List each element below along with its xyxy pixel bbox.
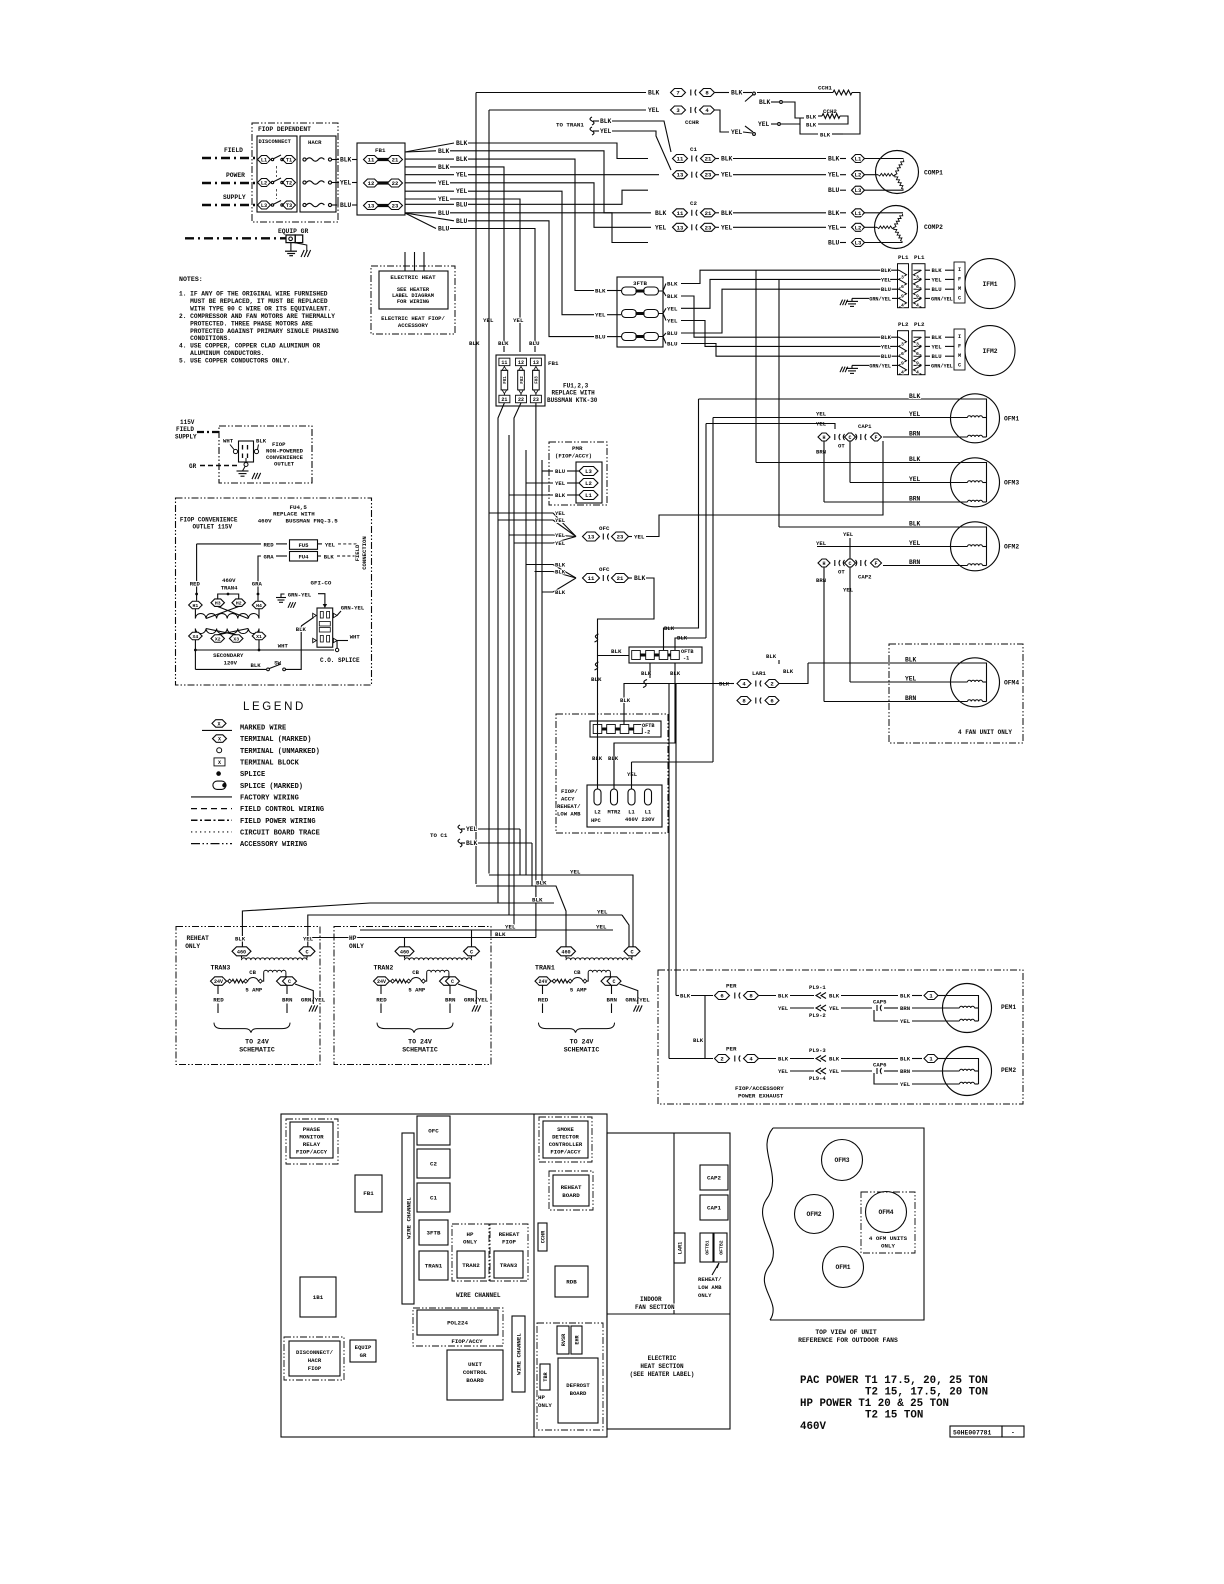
svg-text:ALUMINUM CONDUCTORS.: ALUMINUM CONDUCTORS.	[190, 350, 264, 357]
svg-text:12: 12	[368, 180, 375, 187]
svg-text:REHEAT/: REHEAT/	[557, 803, 581, 810]
svg-text:PL2: PL2	[898, 321, 909, 328]
svg-text:FIOP: FIOP	[308, 1365, 322, 1372]
svg-text:115V: 115V	[180, 419, 195, 426]
svg-text:DISCONNECT/: DISCONNECT/	[296, 1349, 334, 1356]
svg-text:21: 21	[392, 157, 399, 164]
svg-text:TERMINAL BLOCK: TERMINAL BLOCK	[240, 760, 300, 768]
svg-text:YEL: YEL	[909, 411, 921, 418]
svg-text:LAR1: LAR1	[752, 670, 766, 677]
svg-text:YEL: YEL	[843, 531, 854, 538]
svg-text:YEL: YEL	[667, 318, 678, 325]
svg-text:BLK: BLK	[766, 653, 777, 660]
svg-text:24V: 24V	[377, 979, 386, 985]
svg-text:MARKED WIRE: MARKED WIRE	[240, 725, 286, 733]
svg-text:4. USE COPPER, COPPER CLAD ALU: 4. USE COPPER, COPPER CLAD ALUMINUM OR	[179, 343, 320, 350]
svg-text:BOARD: BOARD	[562, 1192, 580, 1199]
svg-text:YEL: YEL	[932, 343, 943, 350]
svg-text:YEL: YEL	[721, 172, 733, 179]
svg-text:460: 460	[237, 949, 246, 955]
svg-text:TERMINAL (MARKED): TERMINAL (MARKED)	[240, 736, 311, 744]
svg-text:-1: -1	[683, 656, 689, 662]
svg-text:BLU: BLU	[456, 201, 468, 208]
svg-text:FACTORY WIRING: FACTORY WIRING	[240, 795, 299, 803]
svg-text:7: 7	[676, 90, 679, 97]
svg-text:460: 460	[400, 949, 409, 955]
svg-text:BLK: BLK	[600, 118, 612, 125]
svg-text:ONLY: ONLY	[698, 1292, 712, 1299]
svg-text:BLK: BLK	[591, 676, 602, 683]
svg-text:BUSSMAN KTK-30: BUSSMAN KTK-30	[547, 397, 598, 404]
svg-text:YEL: YEL	[438, 180, 450, 187]
svg-text:(SEE HEATER LABEL): (SEE HEATER LABEL)	[630, 1371, 695, 1378]
svg-text:BLK: BLK	[721, 156, 733, 163]
svg-text:BLK: BLK	[900, 1056, 911, 1063]
svg-text:FU2: FU2	[521, 376, 525, 384]
svg-text:WIRE CHANNEL: WIRE CHANNEL	[516, 1333, 523, 1375]
svg-text:YEL: YEL	[829, 1068, 840, 1075]
svg-text:WHT: WHT	[223, 438, 234, 445]
svg-text:BLK: BLK	[438, 148, 450, 155]
svg-text:PAC POWER T1 17.5, 20, 25 TON: PAC POWER T1 17.5, 20, 25 TON	[800, 1375, 988, 1387]
svg-text:BLK: BLK	[693, 1037, 704, 1044]
svg-text:FU5: FU5	[298, 542, 309, 549]
svg-text:YEL: YEL	[555, 510, 566, 517]
svg-text:OFTB1: OFTB1	[705, 1240, 711, 1255]
svg-text:GR: GR	[189, 463, 197, 470]
svg-text:OFM3: OFM3	[834, 1157, 849, 1164]
svg-text:4: 4	[901, 303, 904, 309]
svg-text:9: 9	[901, 294, 904, 300]
svg-text:BRN: BRN	[445, 996, 456, 1003]
svg-text:460V: 460V	[222, 577, 236, 584]
svg-text:X: X	[218, 737, 221, 743]
svg-text:L1: L1	[628, 810, 634, 816]
svg-text:BLK: BLK	[881, 267, 892, 274]
svg-text:YEL: YEL	[655, 224, 667, 231]
svg-text:YEL: YEL	[648, 107, 660, 114]
svg-text:BLK: BLK	[829, 993, 840, 1000]
svg-text:BRN: BRN	[816, 449, 826, 456]
svg-text:I: I	[958, 334, 961, 340]
svg-text:BLU: BLU	[667, 330, 678, 337]
svg-text:OFC: OFC	[428, 1128, 439, 1135]
svg-text:YEL: YEL	[627, 771, 638, 778]
svg-text:1. IF ANY OF THE ORIGINAL WIRE: 1. IF ANY OF THE ORIGINAL WIRE FURNISHED	[179, 291, 328, 298]
svg-text:OFM2: OFM2	[806, 1211, 821, 1218]
svg-text:11: 11	[677, 210, 684, 217]
svg-text:CCHR: CCHR	[685, 119, 699, 126]
svg-text:BLU: BLU	[667, 341, 678, 348]
svg-text:ONLY: ONLY	[349, 943, 364, 950]
svg-text:23: 23	[617, 534, 624, 541]
svg-text:H3: H3	[215, 601, 221, 607]
svg-text:460: 460	[561, 949, 570, 955]
svg-text:11: 11	[588, 575, 595, 582]
svg-text:TRAN4: TRAN4	[221, 585, 238, 592]
svg-text:YEL: YEL	[340, 180, 352, 187]
svg-text:L2: L2	[594, 810, 600, 816]
svg-text:OFM3: OFM3	[1004, 480, 1019, 487]
svg-text:IFM2: IFM2	[982, 348, 997, 355]
svg-text:BRN: BRN	[909, 431, 921, 438]
svg-text:4 OFM UNITS: 4 OFM UNITS	[869, 1235, 908, 1242]
svg-text:23: 23	[392, 203, 399, 210]
svg-text:50HE007781: 50HE007781	[953, 1430, 992, 1437]
svg-text:RED: RED	[376, 996, 387, 1003]
svg-text:GRN/YEL: GRN/YEL	[869, 363, 891, 369]
svg-text:CONDITIONS.: CONDITIONS.	[190, 335, 231, 342]
svg-text:DETECTOR: DETECTOR	[552, 1134, 579, 1141]
svg-text:BRN: BRN	[900, 1005, 910, 1012]
svg-text:BLU: BLU	[529, 340, 540, 347]
svg-text:YEL: YEL	[829, 1005, 840, 1012]
svg-text:C: C	[958, 363, 961, 369]
svg-text:YEL: YEL	[555, 532, 566, 539]
svg-text:H: H	[822, 435, 825, 441]
svg-text:FAN SECTION: FAN SECTION	[635, 1304, 675, 1311]
svg-text:BLK: BLK	[783, 668, 794, 675]
svg-text:CB: CB	[249, 969, 256, 976]
svg-text:4: 4	[916, 370, 919, 376]
svg-text:BRN: BRN	[900, 1068, 910, 1075]
svg-text:BLU: BLU	[438, 226, 450, 233]
svg-text:C: C	[630, 949, 633, 955]
svg-text:C: C	[848, 435, 851, 441]
svg-text:13: 13	[588, 534, 595, 541]
svg-text:FIELD CONTROL WIRING: FIELD CONTROL WIRING	[240, 806, 324, 814]
svg-text:YEL: YEL	[438, 196, 450, 203]
svg-text:5 AMP: 5 AMP	[408, 987, 425, 994]
svg-text:BLK: BLK	[595, 288, 606, 295]
svg-text:ACCY: ACCY	[561, 796, 575, 803]
svg-text:ONLY: ONLY	[881, 1243, 895, 1250]
svg-text:POWER: POWER	[226, 172, 245, 179]
svg-text:REHEAT: REHEAT	[499, 1231, 520, 1238]
svg-text:BLK: BLK	[820, 132, 831, 139]
svg-text:H2: H2	[236, 601, 242, 607]
svg-text:11: 11	[368, 157, 375, 164]
svg-text:BLK: BLK	[498, 340, 509, 347]
svg-text:BRN: BRN	[282, 996, 293, 1003]
svg-text:TO 24V: TO 24V	[408, 1039, 432, 1046]
svg-text:WITH TYPE 90 C WIRE OR ITS EQU: WITH TYPE 90 C WIRE OR ITS EQUIVALENT.	[190, 305, 331, 312]
svg-text:(FIOP/ACCY): (FIOP/ACCY)	[555, 453, 592, 460]
svg-text:L1: L1	[855, 210, 862, 217]
svg-text:TRAN1: TRAN1	[535, 965, 555, 972]
svg-text:BLK: BLK	[340, 157, 352, 164]
svg-text:YEL: YEL	[909, 540, 921, 547]
svg-text:CCH1: CCH1	[818, 85, 832, 92]
svg-text:PROTECTED AGAINST PRIMARY SING: PROTECTED AGAINST PRIMARY SINGLE PHASING	[190, 328, 339, 335]
svg-text:PEM1: PEM1	[1001, 1004, 1016, 1011]
svg-text:BLK: BLK	[608, 755, 619, 762]
svg-text:DEFROST: DEFROST	[566, 1382, 590, 1389]
svg-text:1B1: 1B1	[313, 1294, 324, 1301]
svg-text:LOW AMB: LOW AMB	[698, 1284, 722, 1291]
svg-text:YEL: YEL	[513, 317, 524, 324]
svg-text:YEL: YEL	[843, 587, 854, 594]
svg-text:HACR: HACR	[308, 139, 322, 146]
svg-text:-2: -2	[644, 730, 650, 736]
svg-text:CAP6: CAP6	[873, 1062, 887, 1069]
svg-text:I: I	[958, 267, 961, 273]
svg-text:CONNECTION: CONNECTION	[361, 536, 368, 570]
svg-text:FU4: FU4	[298, 554, 309, 561]
svg-text:ACCESSORY WIRING: ACCESSORY WIRING	[240, 841, 307, 849]
svg-text:BLK: BLK	[731, 90, 743, 97]
svg-text:OFC: OFC	[599, 566, 610, 573]
svg-text:21: 21	[705, 156, 712, 163]
svg-text:MONITOR: MONITOR	[299, 1134, 324, 1141]
svg-text:120V: 120V	[224, 660, 238, 667]
svg-text:ONLY: ONLY	[185, 943, 200, 950]
svg-text:BLK: BLK	[495, 931, 506, 938]
svg-text:FIOP: FIOP	[502, 1239, 516, 1246]
svg-text:21: 21	[617, 575, 624, 582]
svg-text:YEL: YEL	[932, 276, 943, 283]
svg-text:NOTES:: NOTES:	[179, 276, 203, 283]
svg-text:M: M	[958, 286, 961, 292]
svg-text:OT: OT	[838, 443, 845, 450]
svg-text:X2: X2	[215, 637, 221, 643]
svg-text:4 FAN UNIT ONLY: 4 FAN UNIT ONLY	[958, 729, 1012, 736]
svg-text:OFC: OFC	[599, 525, 610, 532]
svg-text:REPLACE WITH: REPLACE WITH	[273, 511, 315, 518]
svg-text:HP: HP	[467, 1231, 474, 1238]
svg-text:TRAN2: TRAN2	[462, 1262, 480, 1269]
svg-text:YEL: YEL	[881, 276, 892, 283]
svg-text:TRAN3: TRAN3	[211, 965, 231, 972]
svg-text:GR: GR	[360, 1352, 367, 1359]
svg-text:T1: T1	[286, 158, 292, 164]
svg-text:230V: 230V	[642, 817, 656, 823]
svg-text:GRN/YEL: GRN/YEL	[931, 296, 953, 302]
svg-text:BLK: BLK	[721, 210, 733, 217]
svg-text:BLU: BLU	[932, 286, 942, 293]
svg-text:EHR: EHR	[575, 1334, 581, 1344]
svg-text:YEL: YEL	[600, 128, 612, 135]
svg-text:CAP5: CAP5	[873, 999, 887, 1006]
svg-text:TRAN2: TRAN2	[374, 965, 394, 972]
svg-text:3FTB: 3FTB	[427, 1230, 441, 1237]
svg-text:MTR2: MTR2	[608, 810, 621, 816]
svg-text:HACR: HACR	[308, 1357, 322, 1364]
svg-text:BRN: BRN	[905, 695, 917, 702]
svg-text:LEGEND: LEGEND	[243, 701, 306, 713]
svg-text:GRN-YEL: GRN-YEL	[288, 591, 312, 598]
svg-text:BLK: BLK	[909, 456, 921, 463]
svg-text:YEL: YEL	[596, 924, 607, 931]
svg-text:X: X	[218, 760, 221, 766]
svg-text:13: 13	[677, 172, 684, 179]
svg-text:C: C	[848, 561, 851, 567]
svg-text:YEL: YEL	[555, 540, 566, 547]
svg-text:BLK: BLK	[759, 99, 771, 106]
svg-text:BLK: BLK	[932, 267, 943, 274]
svg-text:EQUIP: EQUIP	[355, 1344, 372, 1351]
svg-text:ELECTRIC HEAT FIOP/: ELECTRIC HEAT FIOP/	[381, 315, 445, 322]
svg-text:BLK: BLK	[555, 562, 566, 569]
svg-text:BLK: BLK	[909, 393, 921, 400]
svg-text:FIOP/: FIOP/	[561, 788, 578, 795]
svg-text:BLK: BLK	[828, 156, 840, 163]
svg-text:RED: RED	[538, 996, 549, 1003]
svg-text:3: 3	[901, 342, 904, 348]
svg-text:BLU: BLU	[595, 334, 606, 341]
svg-text:22: 22	[392, 180, 399, 187]
svg-text:HP: HP	[349, 935, 357, 942]
svg-text:UNIT: UNIT	[468, 1361, 482, 1368]
svg-text:23: 23	[533, 397, 539, 403]
svg-text:BRN: BRN	[816, 577, 826, 584]
svg-text:BLK: BLK	[680, 993, 691, 1000]
svg-text:YEL: YEL	[828, 172, 840, 179]
svg-text:WHT: WHT	[278, 643, 289, 650]
svg-text:PL9-4: PL9-4	[809, 1075, 826, 1082]
svg-text:BRN: BRN	[909, 496, 921, 503]
svg-text:YEL: YEL	[905, 676, 917, 683]
svg-text:FB1: FB1	[363, 1190, 374, 1197]
svg-text:BLK: BLK	[456, 156, 468, 163]
svg-text:6: 6	[916, 284, 919, 290]
svg-text:5 AMP: 5 AMP	[570, 987, 587, 994]
svg-text:YEL: YEL	[778, 1005, 789, 1012]
svg-text:3: 3	[916, 275, 919, 281]
svg-text:BLK: BLK	[667, 293, 678, 300]
svg-text:6: 6	[901, 351, 904, 357]
svg-text:BLK: BLK	[655, 210, 667, 217]
svg-text:L1: L1	[261, 158, 267, 164]
svg-text:BLK: BLK	[296, 626, 307, 633]
svg-text:YEL: YEL	[828, 224, 840, 231]
svg-text:BLK: BLK	[806, 114, 817, 121]
svg-text:SPLICE: SPLICE	[240, 771, 265, 779]
svg-text:BLK: BLK	[778, 1056, 789, 1063]
svg-text:F: F	[958, 344, 961, 350]
svg-text:13: 13	[533, 360, 539, 366]
svg-text:BLK: BLK	[235, 936, 246, 943]
svg-text:11: 11	[501, 360, 507, 366]
svg-text:YEL: YEL	[555, 517, 566, 524]
svg-text:5. USE COPPER CONDUCTORS ONLY.: 5. USE COPPER CONDUCTORS ONLY.	[179, 358, 290, 365]
svg-text:T3: T3	[286, 203, 292, 209]
svg-text:OFM4: OFM4	[1004, 680, 1019, 687]
svg-text:FIOP/ACCESSORY: FIOP/ACCESSORY	[735, 1085, 784, 1092]
svg-text:4: 4	[916, 303, 919, 309]
svg-text:OFM1: OFM1	[1004, 416, 1019, 423]
svg-text:TRAN3: TRAN3	[500, 1262, 518, 1269]
svg-text:BLK: BLK	[466, 840, 478, 847]
svg-text:REFERENCE FOR OUTDOOR FANS: REFERENCE FOR OUTDOOR FANS	[798, 1337, 898, 1344]
svg-text:460V: 460V	[625, 817, 639, 823]
svg-text:CCHR: CCHR	[541, 1230, 547, 1243]
svg-text:FIELD: FIELD	[354, 544, 361, 561]
svg-text:PMR: PMR	[572, 445, 583, 452]
svg-text:SUPPLY: SUPPLY	[223, 194, 246, 201]
svg-text:YEL: YEL	[634, 534, 645, 541]
svg-text:IFM1: IFM1	[982, 281, 997, 288]
svg-text:ONLY: ONLY	[538, 1402, 552, 1409]
svg-text:RVSR: RVSR	[561, 1333, 567, 1346]
svg-text:6: 6	[901, 284, 904, 290]
svg-text:CB: CB	[412, 969, 419, 976]
svg-text:L1: L1	[855, 156, 862, 163]
svg-text:YEL: YEL	[325, 541, 336, 548]
svg-text:BLK: BLK	[438, 164, 450, 171]
svg-text:9: 9	[901, 361, 904, 367]
svg-text:BLK: BLK	[555, 589, 566, 596]
svg-text:21: 21	[705, 210, 712, 217]
svg-text:BLK: BLK	[555, 492, 566, 499]
svg-text:H1: H1	[193, 603, 199, 609]
svg-text:WIRE CHANNEL: WIRE CHANNEL	[406, 1197, 413, 1239]
svg-text:T2: T2	[286, 181, 292, 187]
svg-text:23: 23	[705, 172, 712, 179]
svg-text:11: 11	[677, 156, 684, 163]
svg-text:CAP2: CAP2	[707, 1175, 721, 1182]
svg-text:MUST BE REPLACED, IT MUST BE R: MUST BE REPLACED, IT MUST BE REPLACED	[190, 298, 328, 305]
svg-text:21: 21	[501, 397, 507, 403]
svg-text:4: 4	[901, 370, 904, 376]
svg-text:L3: L3	[261, 203, 267, 209]
svg-text:X1: X1	[256, 634, 262, 640]
svg-text:24V: 24V	[538, 979, 547, 985]
svg-text:24V: 24V	[214, 979, 223, 985]
svg-text:LAR1: LAR1	[678, 1242, 684, 1254]
svg-text:YEL: YEL	[816, 540, 827, 547]
svg-text:EQUIP GR: EQUIP GR	[278, 228, 308, 235]
svg-text:H4: H4	[256, 603, 262, 609]
svg-text:PL1: PL1	[898, 254, 909, 261]
svg-text:YEL: YEL	[466, 826, 478, 833]
svg-text:BOARD: BOARD	[570, 1390, 587, 1397]
svg-text:GRA: GRA	[264, 554, 275, 561]
svg-text:9: 9	[916, 361, 919, 367]
svg-text:SMOKE: SMOKE	[557, 1126, 574, 1133]
svg-text:TO 24V: TO 24V	[570, 1039, 594, 1046]
svg-text:22: 22	[518, 397, 524, 403]
svg-text:GRN/YEL: GRN/YEL	[869, 296, 891, 302]
svg-text:CB: CB	[574, 969, 581, 976]
svg-text:13: 13	[677, 224, 684, 231]
svg-text:SPLICE (MARKED): SPLICE (MARKED)	[240, 783, 303, 791]
svg-text:TRAN1: TRAN1	[425, 1263, 443, 1270]
svg-text:YEL: YEL	[721, 224, 733, 231]
svg-text:C1: C1	[690, 146, 697, 153]
svg-text:YEL: YEL	[570, 869, 581, 876]
svg-text:TOP VIEW OF UNIT: TOP VIEW OF UNIT	[815, 1329, 877, 1336]
svg-text:6: 6	[916, 351, 919, 357]
svg-text:WIRE CHANNEL: WIRE CHANNEL	[456, 1292, 501, 1299]
svg-text:TO 24V: TO 24V	[245, 1039, 269, 1046]
svg-text:YEL: YEL	[816, 411, 827, 418]
svg-text:REHEAT: REHEAT	[187, 935, 210, 942]
svg-text:YEL: YEL	[758, 121, 770, 128]
svg-text:OFM4: OFM4	[878, 1209, 893, 1216]
svg-text:BLU: BLU	[881, 353, 891, 360]
svg-text:PEM2: PEM2	[1001, 1067, 1016, 1074]
svg-text:L1: L1	[585, 492, 592, 499]
svg-text:ONLY: ONLY	[463, 1239, 477, 1246]
svg-text:WHT: WHT	[350, 633, 361, 640]
svg-text:BLK: BLK	[532, 897, 543, 904]
svg-text:BLK: BLK	[456, 140, 468, 147]
svg-text:SCHEMATIC: SCHEMATIC	[564, 1047, 600, 1054]
svg-text:REHEAT/: REHEAT/	[698, 1276, 722, 1283]
svg-text:RED: RED	[264, 541, 275, 548]
svg-text:BLK: BLK	[324, 554, 335, 561]
